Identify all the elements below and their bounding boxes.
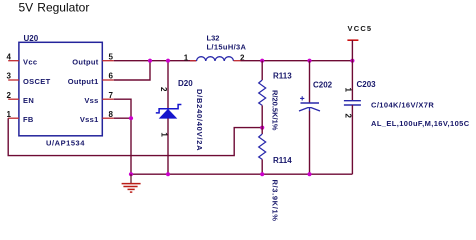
svg-text:R/3.9K/1%: R/3.9K/1% <box>271 180 280 222</box>
svg-text:1: 1 <box>344 88 353 93</box>
svg-text:R/20.5K/1%: R/20.5K/1% <box>271 90 280 131</box>
capacitor C203 symbol <box>344 101 361 105</box>
diode D20 symbol (schottky) <box>156 105 182 119</box>
inductor L32 coil <box>197 57 234 61</box>
diode D20 bottom wire <box>167 118 169 174</box>
svg-text:D/B240/40V/2A: D/B240/40V/2A <box>195 89 204 151</box>
svg-text:1: 1 <box>7 110 12 119</box>
wire pin5 to inductor (switch node) <box>114 60 197 62</box>
svg-text:C/104K/16V/X7R: C/104K/16V/X7R <box>371 101 434 110</box>
svg-text:5V: 5V <box>19 0 34 14</box>
title 5V Regulator <box>19 0 90 14</box>
pin 7 Vss stub <box>102 98 114 100</box>
wire inductor to VCC5 node (output net) <box>241 60 353 62</box>
junction pin8/Vss riser <box>129 116 133 120</box>
pin 5 Output stub <box>102 60 114 62</box>
pin 1 FB stub <box>8 117 19 119</box>
svg-text:C202: C202 <box>313 80 333 89</box>
pin 3 OSCET stub <box>8 79 19 81</box>
capacitor C203 top lead <box>351 61 353 101</box>
pin 8 Vss1 stub <box>102 117 114 119</box>
svg-text:6: 6 <box>109 72 114 81</box>
resistor R114 bottom lead <box>261 159 263 174</box>
junction diode/switch node <box>166 59 170 63</box>
junction diode/ground <box>166 172 170 176</box>
svg-text:Vss1: Vss1 <box>80 115 99 124</box>
svg-text:U/AP1534: U/AP1534 <box>46 139 85 148</box>
capacitor C202 symbol (polarized) <box>299 96 320 111</box>
svg-text:Vss: Vss <box>84 96 98 105</box>
junction C202/output net <box>307 59 311 63</box>
svg-text:U20: U20 <box>24 34 39 43</box>
capacitor C202 bottom lead <box>309 111 311 174</box>
svg-text:L32: L32 <box>207 34 220 43</box>
resistor R113 zigzag <box>259 80 266 105</box>
junction C202/ground <box>307 172 311 176</box>
svg-text:VCC5: VCC5 <box>348 24 373 33</box>
svg-text:2: 2 <box>159 87 168 92</box>
svg-text:FB: FB <box>23 115 34 124</box>
svg-text:2: 2 <box>7 91 12 100</box>
svg-text:C203: C203 <box>357 80 377 89</box>
diode D20 top wire <box>167 61 169 109</box>
svg-text:AL_EL,100uF,M,16V,105C: AL_EL,100uF,M,16V,105C <box>371 119 470 128</box>
resistor R113 top lead <box>261 61 263 80</box>
junction Vss/ground <box>129 172 133 176</box>
svg-text:EN: EN <box>23 96 34 105</box>
svg-text:3: 3 <box>7 72 12 81</box>
junction pin6/switch node <box>148 59 152 63</box>
svg-text:4: 4 <box>7 52 12 61</box>
IC U20 body <box>19 42 102 136</box>
svg-text:Vcc: Vcc <box>23 58 37 67</box>
resistor R113 bottom lead <box>261 105 263 127</box>
pin 4 Vcc stub <box>8 60 19 62</box>
svg-text:8: 8 <box>109 110 114 119</box>
wire FB feedback path <box>8 118 262 155</box>
ground symbol <box>122 174 141 192</box>
svg-text:L/15uH/3A: L/15uH/3A <box>207 43 247 52</box>
svg-text:R114: R114 <box>273 156 292 165</box>
svg-text:Output1: Output1 <box>68 77 99 86</box>
resistor R114 zigzag <box>259 134 266 159</box>
svg-text:Regulator: Regulator <box>37 0 89 14</box>
capacitor C202 top lead <box>309 61 311 103</box>
resistor R114 top lead <box>261 128 263 134</box>
pin 2 EN stub <box>8 98 19 100</box>
wire ground net <box>131 173 352 175</box>
junction R113/output net <box>260 59 264 63</box>
svg-text:R113: R113 <box>273 72 292 81</box>
wire pin8 Vss1 to Vss riser <box>114 117 131 119</box>
inductor L32 left lead <box>190 60 197 62</box>
capacitor C203 bottom lead <box>351 105 353 174</box>
svg-text:1: 1 <box>160 132 169 137</box>
svg-text:7: 7 <box>109 91 114 100</box>
svg-text:D20: D20 <box>178 79 193 88</box>
svg-text:1: 1 <box>184 53 189 62</box>
power symbol VCC5 <box>347 24 372 61</box>
wire pin6 riser to switch node <box>114 61 150 80</box>
svg-text:OSCET: OSCET <box>23 77 51 86</box>
svg-text:5: 5 <box>109 52 114 61</box>
svg-text:2: 2 <box>344 114 353 119</box>
inductor L32 right lead <box>234 60 241 62</box>
junction FB/R113/R114 <box>260 126 264 130</box>
junction R114/ground <box>260 172 264 176</box>
junction C203-VCC5/output net <box>350 59 354 63</box>
wire pin7 Vss down <box>114 99 131 174</box>
svg-text:Output: Output <box>72 58 99 67</box>
pin 6 Output1 stub <box>102 79 114 81</box>
